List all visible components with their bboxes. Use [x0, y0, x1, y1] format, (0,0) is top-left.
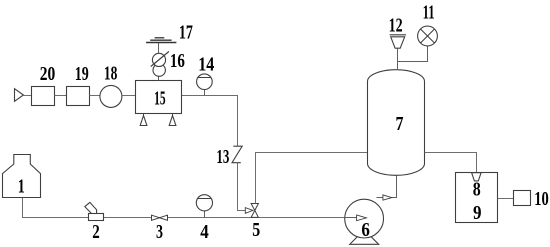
wire: box 20 to box 19 [55, 95, 67, 97]
svg-text:13: 13 [216, 146, 229, 168]
svg-text:7: 7 [396, 113, 404, 135]
svg-text:11: 11 [423, 2, 435, 24]
svg-text:2: 2 [92, 221, 100, 243]
funnel 8 [472, 173, 482, 181]
wire: main bottom pipe from tank 1 to pump 6 [23, 198, 358, 218]
ground 17 [146, 38, 176, 43]
svg-text:8: 8 [473, 178, 481, 200]
svg-text:18: 18 [104, 62, 118, 84]
indicator 11 (circle with X) [418, 26, 438, 46]
wire: box 19 to circle 18 [90, 95, 101, 97]
wire: line from box 15 right side to break 13 [182, 96, 238, 147]
svg-text:4: 4 [200, 221, 209, 243]
svg-text:16: 16 [170, 50, 185, 72]
break symbol 13 [232, 146, 242, 163]
svg-text:14: 14 [198, 54, 214, 76]
arrow on pump outlet [383, 195, 392, 200]
svg-text:3: 3 [156, 221, 163, 243]
foot left of box 15 [140, 114, 147, 126]
gauge 4 [196, 195, 212, 218]
wire: from valve 5 up and right to vessel 7 [256, 153, 369, 204]
valve 3 [152, 215, 168, 220]
box 10 [514, 191, 531, 206]
box 9 [456, 173, 498, 223]
wire: circle 18 to box 15 [122, 95, 136, 97]
wire: pump outlet up to vessel 7 bottom [377, 175, 397, 197]
wire: box 15 top stub [158, 76, 160, 80]
strainer 2 [85, 202, 104, 220]
regulator 16 (circle with slash) [151, 52, 169, 67]
circle 18 [100, 85, 122, 107]
gauge 14 [197, 74, 213, 96]
wire: box 9 to box 10 [498, 198, 514, 200]
wire: funnel 12 stem down to vessel 7 top [397, 48, 399, 70]
wire: nozzle to box 20 [23, 95, 31, 97]
svg-text:6: 6 [361, 219, 370, 241]
svg-text:9: 9 [473, 202, 482, 224]
box 19 [67, 87, 90, 106]
wire: vessel 7 right side to box 9 funnel [425, 153, 477, 173]
tank 1 [3, 155, 41, 198]
foot right of box 15 [169, 114, 176, 126]
svg-text:1: 1 [18, 175, 25, 197]
svg-text:5: 5 [252, 219, 260, 241]
wire: circle 16 up to ground 17 [158, 43, 160, 54]
pump 6 [345, 199, 384, 244]
box 15 [136, 81, 182, 114]
svg-text:10: 10 [534, 188, 549, 210]
svg-text:17: 17 [179, 21, 193, 43]
funnel 12 [390, 35, 406, 48]
wire: circle 11 to funnel 12 stem [398, 46, 428, 62]
wire: from break 13 down and into valve 5 [238, 163, 246, 211]
lower circle of device 16 [153, 64, 165, 76]
vessel 7 [368, 70, 425, 176]
svg-text:15: 15 [154, 88, 166, 110]
svg-text:20: 20 [40, 63, 56, 85]
inlet nozzle (far left triangle) [15, 89, 24, 102]
box 20 [32, 87, 55, 106]
svg-text:12: 12 [389, 15, 403, 37]
arrow into valve 5 [245, 208, 253, 214]
valve 5 [251, 204, 258, 218]
wire: pump inlet segment with arrow [345, 215, 367, 221]
svg-text:19: 19 [75, 63, 89, 85]
